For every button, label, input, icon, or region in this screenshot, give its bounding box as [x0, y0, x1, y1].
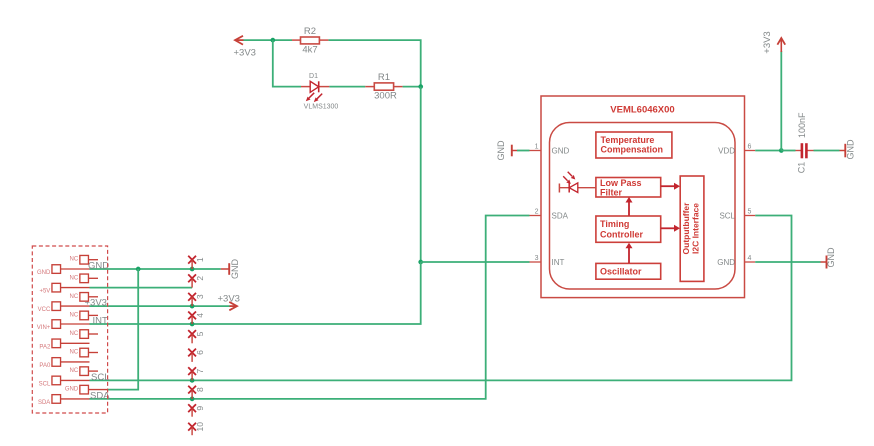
connector left pin labels — [37, 270, 51, 406]
svg-text:+3V3: +3V3 — [234, 48, 256, 59]
contact NC 6 — [80, 348, 89, 357]
svg-text:R2: R2 — [304, 26, 316, 37]
pin 5 — [188, 330, 196, 338]
wire row3 connector to pin3 — [90, 305, 193, 307]
contact GND row8 right — [80, 385, 89, 394]
wire row2 connector to pin2 — [90, 287, 193, 289]
svg-text:GND: GND — [88, 261, 109, 272]
wire pin4 row to connector — [90, 323, 193, 325]
pin 10 — [188, 423, 196, 431]
svg-text:SCL: SCL — [91, 372, 109, 383]
wire pin3 to +3V3 arrow — [192, 305, 229, 307]
IC pin 5 SCL stub — [745, 215, 756, 217]
arrow Timing Controller to Outputbuffer — [661, 225, 680, 232]
svg-text:GND: GND — [717, 258, 735, 267]
svg-text:SDA: SDA — [552, 212, 569, 221]
contact VCC row3 — [52, 302, 61, 311]
connector J1 right NC contact boxes and stubs — [80, 255, 108, 394]
contact PA0 row6 — [52, 358, 61, 367]
svg-text:VEML6046X00: VEML6046X00 — [610, 105, 674, 116]
svg-text:4: 4 — [748, 255, 752, 262]
arrow LPF to Outputbuffer — [661, 183, 680, 190]
arrow Timing Controller to LPF — [626, 197, 633, 216]
svg-text:VIN+: VIN+ — [37, 325, 51, 331]
svg-text:VCC: VCC — [38, 307, 51, 313]
svg-text:+3V3: +3V3 — [762, 31, 773, 53]
wire VDD junction to C1 — [781, 150, 795, 152]
contact NC 3 — [80, 293, 89, 302]
contact +5V row2 — [52, 283, 61, 292]
svg-text:GND: GND — [552, 147, 570, 156]
wire C1 to ground — [814, 150, 840, 152]
contact NC 7 — [80, 367, 89, 376]
block Outputbuffer I2C Interface — [680, 176, 704, 281]
block Temperature Compensation — [596, 132, 672, 158]
wire SDA pin8 to IC SDA — [192, 216, 529, 399]
svg-text:VLMS1300: VLMS1300 — [304, 104, 339, 111]
wire GND branch vertical to connector GND pin — [108, 269, 139, 390]
svg-text:3: 3 — [195, 294, 205, 299]
junction at R2 left / +3V3 — [270, 38, 275, 43]
junction pin 7 — [190, 378, 195, 383]
svg-text:+3V3: +3V3 — [218, 294, 240, 305]
svg-text:INT: INT — [552, 258, 565, 267]
svg-text:100nF: 100nF — [797, 112, 807, 138]
ground symbol at IC pin 4 — [821, 256, 827, 269]
svg-text:NC: NC — [70, 331, 79, 337]
svg-text:Compensation: Compensation — [601, 145, 664, 155]
svg-text:NC: NC — [70, 294, 79, 300]
junction GND branch — [136, 267, 141, 272]
connector NC labels — [65, 257, 79, 393]
wire SDA row8 connector to pin8 — [90, 398, 193, 400]
contact SCL row7 — [52, 376, 61, 385]
wire pin1 to ground symbol — [192, 268, 221, 270]
junction pin 3 — [190, 304, 195, 309]
wire D1 to R1 — [329, 86, 365, 88]
svg-text:Temperature: Temperature — [601, 135, 655, 145]
junction VDD — [779, 148, 784, 153]
svg-text:SCL: SCL — [719, 212, 735, 221]
contact NC 4 — [80, 311, 89, 320]
svg-text:9: 9 — [195, 406, 205, 411]
ground symbol at IC pin 1 — [512, 145, 517, 157]
svg-text:GND: GND — [230, 259, 240, 280]
IC pin 2 SDA stub — [530, 215, 542, 217]
svg-text:Controller: Controller — [600, 230, 643, 240]
power flag +3V3 top-right — [777, 38, 785, 52]
pin header JP1 pins 1-10 — [188, 256, 196, 435]
svg-text:300R: 300R — [374, 91, 397, 102]
svg-text:Filter: Filter — [600, 188, 623, 198]
svg-text:2: 2 — [535, 209, 539, 216]
junction R1 right — [418, 84, 423, 89]
svg-text:GND: GND — [65, 387, 79, 393]
wire SCL pin7 to IC SCL — [192, 216, 791, 381]
pin 1 — [188, 256, 196, 264]
svg-text:3: 3 — [535, 255, 539, 262]
contact PA2 row5 — [52, 339, 61, 348]
svg-text:VDD: VDD — [718, 147, 735, 156]
block Oscillator — [596, 263, 661, 279]
wire +3V3 flag to junction — [244, 39, 273, 41]
svg-text:4: 4 — [195, 313, 205, 318]
svg-text:1: 1 — [195, 257, 205, 262]
svg-text:8: 8 — [195, 387, 205, 392]
svg-text:6: 6 — [195, 350, 205, 355]
junction pin 8 — [190, 397, 195, 402]
svg-text:SCL: SCL — [39, 381, 51, 387]
pin 6 — [188, 349, 196, 357]
svg-text:5: 5 — [748, 209, 752, 216]
connector J1 left contact boxes and stubs — [52, 265, 90, 404]
contact VIN+ row4 — [52, 320, 61, 329]
svg-text:NC: NC — [70, 312, 79, 318]
svg-text:NC: NC — [70, 257, 79, 263]
wire junction to R2 left — [273, 39, 292, 41]
wire INT down to pin 4 row — [192, 262, 421, 324]
svg-text:10: 10 — [195, 422, 205, 432]
svg-text:7: 7 — [195, 368, 205, 373]
IC pin 4 GND stub — [745, 261, 756, 263]
pin header numbers 1-10 — [195, 257, 205, 431]
wire SCL row7 connector to pin7 — [90, 379, 193, 381]
svg-text:4k7: 4k7 — [302, 45, 317, 56]
pin 3 — [188, 293, 196, 301]
capacitor C1 — [796, 143, 814, 158]
resistor R2 — [292, 37, 328, 44]
svg-text:NC: NC — [70, 275, 79, 281]
resistor R1 — [365, 83, 402, 90]
svg-text:6: 6 — [748, 144, 752, 151]
svg-text:R1: R1 — [378, 72, 390, 83]
wire IC pin4 GND to ground — [755, 261, 820, 263]
wire junction to IC pin INT — [421, 261, 530, 263]
ground symbol right of C1 — [840, 144, 846, 158]
wire branch to pin1 — [138, 268, 192, 270]
wire INT vertical — [420, 87, 422, 262]
svg-text:GND: GND — [496, 140, 506, 161]
svg-text:Outputbuffer: Outputbuffer — [681, 202, 691, 255]
LED D1 — [301, 81, 329, 102]
wire R2 right to top corner, down to R1 junction — [328, 40, 420, 87]
pin 7 — [188, 367, 196, 375]
svg-text:Timing: Timing — [600, 219, 629, 229]
contact SDA row8 — [52, 395, 61, 404]
contact GND row1 — [52, 265, 61, 274]
ground symbol at pin 1 — [221, 263, 229, 275]
svg-text:NC: NC — [70, 368, 79, 374]
contact NC 5 — [80, 330, 89, 339]
svg-text:NC: NC — [70, 350, 79, 356]
svg-text:GND: GND — [37, 270, 51, 276]
wire VDD pin to junction — [755, 150, 781, 152]
wire IC pin1 to ground — [517, 150, 530, 152]
svg-text:GND: GND — [826, 247, 836, 268]
junction INT — [418, 260, 423, 265]
svg-text:2: 2 — [195, 276, 205, 281]
pin 2 — [188, 274, 196, 282]
svg-text:Low Pass: Low Pass — [600, 178, 642, 188]
svg-text:1: 1 — [535, 144, 539, 151]
wire junction up to +3V3 — [780, 51, 782, 151]
wire R1 to junction — [403, 86, 421, 88]
contact NC 2 — [80, 274, 89, 283]
pin 8 — [188, 386, 196, 394]
svg-text:D1: D1 — [309, 73, 318, 80]
block Timing Controller — [596, 216, 661, 242]
junction pin 1 — [190, 267, 195, 272]
svg-text:PA0: PA0 — [39, 363, 51, 369]
IC pin 6 VDD stub — [745, 150, 756, 152]
pin 4 — [188, 312, 196, 320]
IC U1 VEML6046X00 outer box — [541, 96, 745, 298]
wire GND row1 connector to branch — [90, 268, 139, 270]
connector J1 dashed outline — [32, 246, 107, 413]
power flag +3V3 top-left — [235, 36, 244, 45]
IC pin 3 INT stub — [530, 261, 542, 263]
pin 9 — [188, 404, 196, 412]
photodiode inside IC — [559, 172, 596, 193]
contact NC 1 — [80, 255, 89, 264]
junction pin 4 — [190, 322, 195, 327]
IC pin 1 GND stub — [530, 150, 542, 152]
svg-text:+5V: +5V — [39, 289, 50, 295]
arrow Oscillator to Timing Controller — [626, 243, 633, 263]
IC inner rounded body — [550, 123, 736, 290]
svg-text:Oscillator: Oscillator — [600, 267, 642, 277]
block Low Pass Filter — [596, 178, 661, 198]
svg-text:I2C Interface: I2C Interface — [691, 203, 701, 254]
svg-text:INT: INT — [93, 316, 109, 327]
svg-text:5: 5 — [195, 331, 205, 336]
svg-text:SDA: SDA — [38, 400, 50, 406]
power flag +3V3 at pin3 — [229, 302, 237, 310]
svg-text:GND: GND — [846, 139, 856, 160]
svg-text:C1: C1 — [797, 162, 807, 174]
svg-text:PA2: PA2 — [39, 344, 51, 350]
wire junction down to D1 anode — [273, 40, 301, 87]
